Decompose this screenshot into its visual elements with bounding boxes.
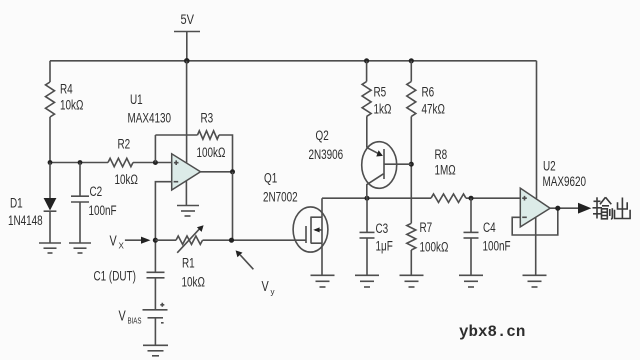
ground under D1 xyxy=(39,243,61,253)
battery VBIAS xyxy=(119,303,168,346)
ground under C4 xyxy=(459,275,483,287)
wire U1 power from rail xyxy=(186,61,188,163)
svg-text:47kΩ: 47kΩ xyxy=(422,102,445,117)
wire R6 down to R7 xyxy=(410,116,412,223)
svg-text:R6: R6 xyxy=(422,85,435,100)
ground under Q1 xyxy=(311,275,335,287)
svg-text:100nF: 100nF xyxy=(89,203,117,218)
capacitor C4 xyxy=(464,198,511,275)
svg-text:C3: C3 xyxy=(376,221,389,236)
svg-text:1MΩ: 1MΩ xyxy=(435,163,456,178)
wire rail to R4 xyxy=(49,61,51,82)
wire U2 output xyxy=(550,207,578,209)
ground under C2 xyxy=(69,243,91,253)
resistor R7 xyxy=(407,220,449,275)
ground under C3 xyxy=(355,275,379,287)
svg-text:ybx8.cn: ybx8.cn xyxy=(459,323,525,341)
5V supply symbol xyxy=(174,12,200,61)
node C3/collector junction xyxy=(365,196,370,201)
svg-text:2N7002: 2N7002 xyxy=(263,190,298,205)
svg-text:2N3906: 2N3906 xyxy=(309,147,344,162)
svg-text:1kΩ: 1kΩ xyxy=(374,102,392,117)
node C4 junction xyxy=(469,196,474,201)
label Vx with arrow xyxy=(110,234,151,251)
wire U2 ground stub xyxy=(535,217,537,275)
wire U2 feedback loop xyxy=(512,208,558,235)
svg-text:C2: C2 xyxy=(90,184,103,199)
svg-text:1μF: 1μF xyxy=(376,239,393,254)
resistor R3 xyxy=(197,111,226,161)
wire U2 power from rail xyxy=(536,61,538,199)
node 5V rail junction xyxy=(184,58,190,64)
node rail-R6 junction xyxy=(409,58,414,63)
ground under U2 xyxy=(523,275,547,287)
svg-text:D1: D1 xyxy=(10,196,23,211)
svg-text:10kΩ: 10kΩ xyxy=(182,275,205,290)
node R2/R3 feedback junction xyxy=(153,160,158,165)
wire R1 to Q1 gate xyxy=(203,239,307,241)
node U2 output junction xyxy=(555,206,560,211)
ground under U1 xyxy=(177,206,199,217)
resistor R6 xyxy=(407,61,445,117)
svg-text:y: y xyxy=(271,288,275,297)
diode D1 xyxy=(8,163,56,244)
op-amp U2 xyxy=(520,159,586,227)
output arrow xyxy=(578,203,591,214)
node Vx xyxy=(153,238,158,243)
wire left horizontal to R2 xyxy=(50,162,108,164)
ground under VBIAS xyxy=(143,345,168,356)
op-amp U1 xyxy=(128,92,201,190)
resistor R2 xyxy=(108,137,138,188)
wire R4 to left node xyxy=(49,117,51,163)
svg-text:R8: R8 xyxy=(435,147,448,162)
wire U1 output xyxy=(201,171,233,173)
wire U1 IN- to Vx column xyxy=(155,182,171,272)
ground under R7 xyxy=(400,275,424,287)
wire top power rail xyxy=(50,60,537,62)
capacitor C1 (DUT) xyxy=(94,269,165,310)
node U1 output junction xyxy=(230,169,235,174)
svg-text:1N4148: 1N4148 xyxy=(8,213,43,228)
node Vy xyxy=(229,238,234,243)
capacitor C2 xyxy=(71,163,117,244)
svg-text:R3: R3 xyxy=(201,111,214,126)
svg-text:10kΩ: 10kΩ xyxy=(115,172,138,187)
svg-text:R5: R5 xyxy=(374,85,387,100)
svg-text:100nF: 100nF xyxy=(483,239,511,254)
svg-text:BIAS: BIAS xyxy=(128,317,142,326)
resistor R8 xyxy=(431,147,466,202)
resistor R4 xyxy=(46,82,84,118)
wire drain rail horizontal xyxy=(322,197,431,199)
svg-text:MAX4130: MAX4130 xyxy=(128,111,172,126)
svg-text:100kΩ: 100kΩ xyxy=(420,240,449,255)
label Vy with arrow xyxy=(236,250,275,296)
node C2 top xyxy=(78,160,83,165)
svg-text:R4: R4 xyxy=(60,82,73,97)
svg-text:10kΩ: 10kΩ xyxy=(60,98,83,113)
wire feedback top to R3 xyxy=(155,134,197,136)
svg-text:R2: R2 xyxy=(118,137,131,152)
wire R8 to U2 xyxy=(466,197,520,199)
svg-text:5V: 5V xyxy=(181,12,195,27)
node Q2 base junction xyxy=(409,162,414,167)
svg-text:C1 (DUT): C1 (DUT) xyxy=(94,269,136,284)
svg-text:U2: U2 xyxy=(543,159,556,174)
transistor Q1 2N7002 xyxy=(263,171,328,276)
svg-text:V: V xyxy=(119,309,126,325)
svg-text:C4: C4 xyxy=(483,220,496,235)
svg-text:MAX9620: MAX9620 xyxy=(543,174,587,189)
wire Vx to R1 xyxy=(155,239,176,241)
svg-text:R7: R7 xyxy=(420,220,433,235)
label output Chinese 输出 xyxy=(593,197,631,219)
resistor R5 xyxy=(362,61,391,117)
svg-text:V: V xyxy=(110,234,117,250)
svg-text:100kΩ: 100kΩ xyxy=(197,145,226,160)
svg-text:R1: R1 xyxy=(182,256,195,271)
svg-text:Q2: Q2 xyxy=(316,128,329,143)
wire R3 to output column xyxy=(219,135,233,172)
svg-text:V: V xyxy=(262,279,269,295)
wire R2 to U1 IN+ xyxy=(133,162,172,164)
node rail-R5 junction xyxy=(364,58,369,63)
transistor Q2 2N3906 xyxy=(309,116,412,198)
capacitor C3 xyxy=(360,198,393,275)
svg-text:Q1: Q1 xyxy=(264,171,277,186)
wire feedback vertical up xyxy=(154,135,156,163)
resistor R1 (variable) xyxy=(176,225,205,289)
svg-text:U1: U1 xyxy=(130,92,143,107)
wire U1 ground stub xyxy=(185,181,187,206)
svg-text:X: X xyxy=(119,242,125,251)
wire output down to Vy node xyxy=(232,172,234,240)
node D1 top xyxy=(48,160,53,165)
